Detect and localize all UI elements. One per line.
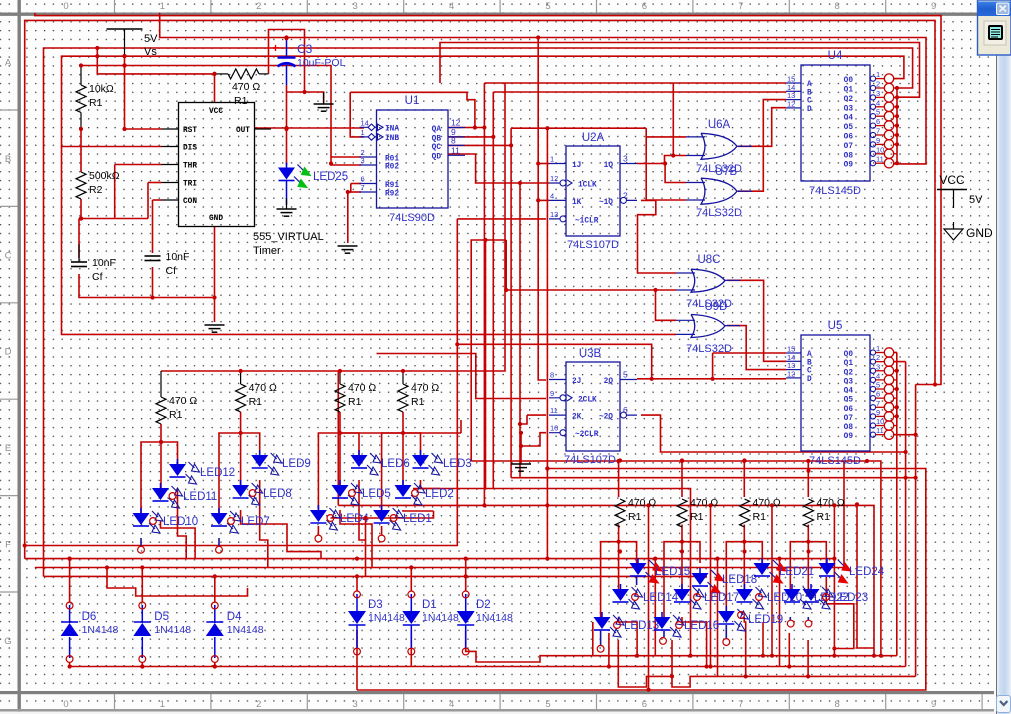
svg-text:O0: O0 <box>844 351 854 359</box>
svg-text:10kΩ: 10kΩ <box>89 83 114 95</box>
LED13 <box>601 612 603 617</box>
svg-text:D: D <box>807 106 812 114</box>
wire G3 feed <box>340 412 359 455</box>
svg-text:9: 9 <box>931 699 936 710</box>
svg-text:R1: R1 <box>753 511 767 523</box>
svg-text:O1: O1 <box>844 87 854 95</box>
LED25 <box>286 163 288 168</box>
power VCC symbol <box>937 189 967 191</box>
svg-text:470 Ω: 470 Ω <box>411 382 439 394</box>
wire x484 drop <box>483 128 485 506</box>
svg-text:G: G <box>4 636 11 647</box>
wire U3B 2Q to U5 pin12 <box>637 378 786 380</box>
svg-text:A: A <box>5 58 12 69</box>
LED11 <box>160 483 162 488</box>
wire G2 feed <box>241 412 260 455</box>
svg-text:R92: R92 <box>385 191 399 199</box>
svg-text:470 Ω: 470 Ω <box>628 497 656 509</box>
or-gate U7B 74LS32D <box>701 178 737 204</box>
wire right G4 feed <box>808 525 826 564</box>
svg-text:2J: 2J <box>572 378 581 386</box>
wire U7B in1 branch <box>665 164 686 183</box>
svg-text:TRI: TRI <box>183 180 197 188</box>
svg-text:LED21: LED21 <box>779 566 814 578</box>
svg-text:R1: R1 <box>249 396 263 408</box>
svg-text:LED19: LED19 <box>748 614 783 626</box>
U5 output chain dots <box>895 369 899 373</box>
svg-text:1N4148: 1N4148 <box>368 612 405 624</box>
svg-text:10nF: 10nF <box>92 257 116 269</box>
diode D3 1N4148 <box>348 611 366 624</box>
svg-text:C: C <box>5 250 12 261</box>
wire U3B 2CLR gnd node <box>521 433 546 446</box>
svg-text:LED25: LED25 <box>313 171 348 183</box>
svg-text:R1: R1 <box>89 97 103 109</box>
wire THR <box>115 164 162 166</box>
svg-text:2: 2 <box>876 80 880 89</box>
resistor 470 bank1 <box>156 397 166 424</box>
svg-text:3: 3 <box>353 699 358 710</box>
svg-text:7: 7 <box>876 127 880 136</box>
wire U2A 1Q out <box>637 156 686 164</box>
wire U3B 2K <box>527 414 546 416</box>
svg-text:QC: QC <box>432 144 442 152</box>
svg-text:OUT: OUT <box>236 127 250 135</box>
wire 470R hop over rails to C3 bottom and gnd <box>269 30 305 93</box>
svg-text:1: 1 <box>160 1 165 12</box>
svg-text:5: 5 <box>876 381 880 390</box>
wire right G3 feed <box>744 525 762 564</box>
resistor R2 500k <box>76 172 86 199</box>
wire rail y83 to U4 pin15 <box>484 82 786 84</box>
svg-text:Vs: Vs <box>144 46 157 58</box>
svg-text:7: 7 <box>738 1 743 12</box>
svg-text:A: A <box>807 351 812 359</box>
svg-text:O2: O2 <box>844 369 854 377</box>
decoder U5 74LS145D <box>801 335 870 451</box>
svg-text:9: 9 <box>876 408 880 417</box>
capacitor Cf 10nF right <box>145 256 161 261</box>
svg-text:1: 1 <box>876 70 880 79</box>
wire rail y48 <box>44 48 913 576</box>
svg-text:O3: O3 <box>844 378 854 386</box>
LED22 <box>791 584 793 589</box>
svg-text:10nF: 10nF <box>166 251 190 263</box>
svg-text:11: 11 <box>550 406 558 415</box>
svg-text:O4: O4 <box>844 115 854 123</box>
wire right G2 cathodes <box>682 617 707 667</box>
LED8 <box>240 480 242 485</box>
wire U5 chain riser x896 to bus A <box>896 353 898 656</box>
svg-text:D2: D2 <box>476 599 491 611</box>
resistor 470 bank2 <box>236 384 246 412</box>
svg-text:Cf: Cf <box>166 265 177 277</box>
svg-text:6: 6 <box>642 1 647 12</box>
svg-text:1CLK: 1CLK <box>578 182 597 190</box>
svg-text:11: 11 <box>876 426 884 435</box>
svg-text:13: 13 <box>550 210 558 219</box>
svg-text:4: 4 <box>876 98 880 107</box>
wire U9D out to U5 pin13 <box>727 326 786 370</box>
svg-text:1N4148: 1N4148 <box>154 624 191 636</box>
resistor 470 bank3 <box>335 384 345 412</box>
LED18 <box>699 568 701 573</box>
svg-text:12: 12 <box>787 99 795 108</box>
svg-text:R1: R1 <box>234 95 248 107</box>
svg-text:LED3: LED3 <box>443 458 472 470</box>
svg-text:470 Ω: 470 Ω <box>249 382 277 394</box>
wire U5 O rows to risers <box>894 352 897 354</box>
wire rail y15.6 <box>35 13 941 385</box>
decoder U4 74LS145D <box>801 65 870 181</box>
svg-text:R01: R01 <box>385 155 399 163</box>
svg-text:74LS145D: 74LS145D <box>809 185 861 197</box>
svg-text:O6: O6 <box>844 134 854 142</box>
wire U3B 2CLK from left <box>377 354 547 399</box>
svg-text:8: 8 <box>451 135 456 145</box>
LED10 <box>140 508 142 513</box>
wire U3B ~2Q to y452 line <box>641 415 906 452</box>
svg-text:1: 1 <box>550 155 554 164</box>
svg-text:R91: R91 <box>385 182 399 190</box>
svg-text:1Q: 1Q <box>604 162 614 170</box>
svg-text:1N4148: 1N4148 <box>82 624 119 636</box>
svg-text:5: 5 <box>545 1 550 12</box>
svg-text:LED16: LED16 <box>684 620 719 632</box>
wire bus1 y558 <box>25 558 835 560</box>
svg-text:O1: O1 <box>844 360 854 368</box>
ground under U1 R9 pins <box>338 246 358 253</box>
svg-text:LED2: LED2 <box>425 488 454 500</box>
svg-text:U1: U1 <box>405 95 420 107</box>
wire R2 bottom node to Cf1 <box>79 218 148 220</box>
wire x511 vertical <box>510 128 512 478</box>
wire left bank top bus <box>161 83 505 371</box>
wire U6A out to U4 pin12 <box>738 108 786 147</box>
wire R1a bottom to DIS/R2 node <box>80 129 82 172</box>
wire U9D in2 long from DIS column <box>62 147 677 335</box>
wire TRI <box>148 182 162 184</box>
svg-text:10: 10 <box>876 145 884 154</box>
scrollbar down button <box>997 696 1011 713</box>
svg-text:6: 6 <box>876 117 880 126</box>
counter U1 74LS90D <box>377 110 449 208</box>
svg-text:LED24: LED24 <box>849 566 885 578</box>
LED14 <box>620 584 622 589</box>
wire G3 feed link <box>340 432 461 434</box>
wire x520 vertical from QD node <box>520 183 916 478</box>
svg-text:470 Ω: 470 Ω <box>690 497 718 509</box>
wire rail y20.4 <box>25 20 935 558</box>
wire bottom bus A y655 <box>593 655 897 657</box>
svg-text:B: B <box>5 154 11 165</box>
wire right G1 feed <box>619 525 637 564</box>
sheet border left bar <box>18 0 21 714</box>
svg-text:O7: O7 <box>844 143 854 151</box>
svg-text:~1CLR: ~1CLR <box>575 217 599 225</box>
svg-text:VCC: VCC <box>939 173 965 187</box>
svg-text:O2: O2 <box>844 96 854 104</box>
svg-text:2: 2 <box>876 353 880 362</box>
svg-text:470 Ω: 470 Ω <box>348 382 376 394</box>
svg-text:9: 9 <box>550 389 554 398</box>
svg-text:R1: R1 <box>348 396 362 408</box>
wire band y505 long <box>337 371 339 505</box>
svg-text:5: 5 <box>545 699 550 710</box>
svg-text:500kΩ: 500kΩ <box>89 170 120 182</box>
svg-text:O8: O8 <box>844 152 854 160</box>
wire QA-QB rail y92 segment B to U4 pin14 <box>493 91 786 93</box>
wire U2A feed vertical x538 down to U3B 2J <box>538 38 546 381</box>
svg-text:R1: R1 <box>690 511 704 523</box>
wire G3 cathodes <box>359 480 366 576</box>
wire QC out <box>448 144 511 146</box>
diode D5 1N4148 <box>133 623 151 636</box>
power source VS 5V <box>107 28 143 30</box>
svg-text:74LS107D: 74LS107D <box>564 454 616 466</box>
svg-text:3: 3 <box>876 362 880 371</box>
svg-text:4: 4 <box>449 699 454 710</box>
wire QD out to U2A clk <box>448 154 549 183</box>
svg-text:7: 7 <box>876 399 880 408</box>
sheet border top bar <box>0 13 994 16</box>
wire G2 cathodes <box>260 480 268 568</box>
wire led4 row link <box>365 518 367 540</box>
wire D5 top <box>141 568 143 603</box>
svg-text:O0: O0 <box>844 77 854 85</box>
svg-text:4: 4 <box>876 371 880 380</box>
svg-text:74LS32D: 74LS32D <box>686 343 732 355</box>
svg-text:470 Ω: 470 Ω <box>753 497 781 509</box>
LED3 <box>420 450 422 455</box>
svg-text:Cf: Cf <box>92 271 103 283</box>
svg-text:E: E <box>5 443 11 454</box>
wire U2A ~1Q to U8C in1 <box>638 200 677 273</box>
svg-text:R1: R1 <box>169 409 183 421</box>
wire right bank feeds from band <box>618 461 620 497</box>
svg-text:LED12: LED12 <box>200 467 235 479</box>
or-gate U8C 74LS32D <box>691 269 725 292</box>
svg-text:Timer: Timer <box>253 245 281 257</box>
svg-text:1N4148: 1N4148 <box>476 612 513 624</box>
svg-text:9: 9 <box>931 1 936 12</box>
svg-text:O8: O8 <box>844 424 854 432</box>
LED17 <box>681 584 683 589</box>
wire x547 long vertical <box>546 128 548 558</box>
svg-text:D1: D1 <box>422 599 437 611</box>
svg-text:B: B <box>807 359 812 367</box>
svg-text:4: 4 <box>449 1 454 12</box>
wire DIS <box>62 146 162 148</box>
wire U2A 1J stub <box>538 163 549 165</box>
svg-text:3: 3 <box>876 89 880 98</box>
svg-text:470 Ω: 470 Ω <box>232 81 260 93</box>
svg-text:11: 11 <box>876 155 884 164</box>
svg-text:F: F <box>5 540 11 551</box>
LED15 <box>637 558 639 563</box>
svg-text:5V: 5V <box>144 33 158 45</box>
wire vcc rail from x97 <box>97 48 214 74</box>
LED1 <box>381 505 383 510</box>
svg-text:D4: D4 <box>227 611 242 623</box>
svg-text:~2Q: ~2Q <box>599 414 613 422</box>
wire U6A in1 vertical x646 <box>511 127 646 129</box>
svg-text:D5: D5 <box>154 611 169 623</box>
LED24 <box>826 558 828 563</box>
wire bottom left jog <box>107 568 248 597</box>
svg-text:LED11: LED11 <box>183 491 217 503</box>
wire led1 row link <box>330 511 433 518</box>
U2A clock bubble <box>560 180 566 186</box>
wire D6 top <box>69 559 71 602</box>
svg-text:LED7: LED7 <box>241 516 270 528</box>
wire U1 R91/R92 to gnd <box>351 183 361 185</box>
LED16 <box>661 612 663 617</box>
svg-text:6: 6 <box>642 699 647 710</box>
svg-text:INB: INB <box>385 135 399 143</box>
wire band y468 long to D3 loop <box>357 469 926 691</box>
svg-text:GND: GND <box>966 226 993 240</box>
svg-text:3: 3 <box>353 1 358 12</box>
wire 555 gnd stem <box>214 298 216 323</box>
svg-text:LED5: LED5 <box>362 488 391 500</box>
wire x485 vertical <box>485 240 487 489</box>
svg-text:D3: D3 <box>368 599 383 611</box>
wire U5 O9 jog <box>894 434 916 436</box>
svg-text:LED1: LED1 <box>403 513 432 525</box>
svg-text:DIS: DIS <box>183 144 197 152</box>
wire QA feedback to INB <box>350 92 364 137</box>
wire bottom bus y676 with dips <box>618 676 915 687</box>
svg-text:R1: R1 <box>628 511 642 523</box>
svg-text:2K: 2K <box>572 414 582 422</box>
svg-text:~2CLR: ~2CLR <box>575 431 599 439</box>
LED5 <box>339 480 341 485</box>
junction dots misc <box>95 46 99 50</box>
wire right G3 cathodes <box>744 617 745 676</box>
svg-text:8: 8 <box>835 1 840 12</box>
svg-text:1: 1 <box>160 699 165 710</box>
wire U2A 1CLR long from bottom left <box>457 218 546 220</box>
LED2 <box>402 480 404 485</box>
wire D bottom bus y666 <box>70 662 906 667</box>
wire U7B in2 <box>646 199 686 201</box>
wire QB out <box>448 136 493 138</box>
svg-text:7: 7 <box>361 183 365 192</box>
svg-text:1: 1 <box>361 128 365 137</box>
close button X <box>997 3 1010 15</box>
svg-text:U8C: U8C <box>697 254 720 266</box>
wire U8C feed from 1CLR line <box>457 344 651 379</box>
svg-text:B: B <box>807 89 812 97</box>
floating In-Use-List window <box>978 0 1011 55</box>
wire band y477 from x520 <box>511 477 520 479</box>
wire band y487 from LED2 <box>413 489 691 656</box>
diode D1 1N4148 <box>402 611 420 624</box>
svg-text:2Q: 2Q <box>604 378 614 386</box>
wire x915 vertical <box>915 385 917 677</box>
svg-text:74LS145D: 74LS145D <box>809 455 861 467</box>
svg-text:O4: O4 <box>844 388 854 396</box>
LED7 <box>218 508 220 513</box>
LED19 <box>725 606 727 611</box>
wire QA out <box>448 127 484 129</box>
flip-flop U3B 74LS107D <box>566 362 620 451</box>
resistor R1 470 horizontal <box>228 69 259 79</box>
svg-text:10: 10 <box>550 424 558 433</box>
wire bus3 y576 <box>44 575 708 577</box>
ground under 555 <box>205 325 225 332</box>
svg-text:O7: O7 <box>844 415 854 423</box>
wire D2 col <box>465 559 467 591</box>
wire rail y37.5 to U4 O9 <box>160 13 926 164</box>
wire Vs stem down to RST <box>125 56 162 129</box>
svg-text:R1: R1 <box>817 511 831 523</box>
wire U8C out to U5 pin14 <box>727 280 786 361</box>
wire U5 pin15 from 2Q branch <box>713 352 786 354</box>
svg-text:VCC: VCC <box>209 108 223 116</box>
wire x492 drop <box>492 137 494 489</box>
svg-text:O3: O3 <box>844 105 854 113</box>
svg-text:R2: R2 <box>89 184 103 196</box>
bottom margin strip <box>0 712 996 714</box>
resistor R1 10k <box>76 85 86 113</box>
svg-text:D: D <box>807 376 812 384</box>
resistor 470 bank4 <box>398 384 408 412</box>
svg-text:C3: C3 <box>297 42 313 56</box>
wire G4 feed <box>403 412 421 455</box>
svg-text:U3B: U3B <box>579 348 602 360</box>
resistor 470 right2 <box>677 499 687 527</box>
svg-text:3: 3 <box>361 156 365 165</box>
svg-text:3: 3 <box>623 154 628 164</box>
svg-text:~1Q: ~1Q <box>599 199 613 207</box>
svg-text:1N4148: 1N4148 <box>227 624 264 636</box>
wire G1 feed <box>161 424 178 464</box>
power GND symbol <box>953 222 955 229</box>
svg-text:2: 2 <box>256 699 261 710</box>
ground near U3B <box>511 464 531 471</box>
wire bottom interconnect verticals <box>654 559 656 656</box>
capacitor Cf 10nF left <box>71 262 87 267</box>
svg-text:O5: O5 <box>844 124 854 132</box>
svg-text:12: 12 <box>787 369 795 378</box>
ground under LED25 <box>277 209 297 216</box>
LED12 <box>177 459 179 464</box>
wire right G4 cathodes <box>789 617 791 620</box>
svg-text:LED13: LED13 <box>624 620 659 632</box>
svg-text:8: 8 <box>835 699 840 710</box>
LED21 <box>761 558 763 563</box>
svg-text:10: 10 <box>876 417 884 426</box>
svg-text:R02: R02 <box>385 164 399 172</box>
wire rail y92 segment A QA feedback <box>350 92 475 127</box>
wire right G1 cathodes <box>636 577 638 585</box>
wire G4 cathodes <box>421 480 441 489</box>
wire band y461 right bank feed bus <box>471 461 881 656</box>
svg-text:2: 2 <box>256 1 261 12</box>
diode D4 1N4148 <box>206 623 224 636</box>
wire U8C in2 from left <box>506 289 655 291</box>
wire U5 chain riser x905 to bus y666 <box>905 362 907 667</box>
svg-text:74LS90D: 74LS90D <box>389 212 435 224</box>
diode D6 1N4148 <box>61 623 79 636</box>
wire U8C in2 node <box>656 289 677 291</box>
svg-text:RST: RST <box>183 127 197 135</box>
svg-text:0: 0 <box>63 1 68 12</box>
wire D3 col <box>356 576 358 591</box>
svg-text:INA: INA <box>385 126 399 134</box>
